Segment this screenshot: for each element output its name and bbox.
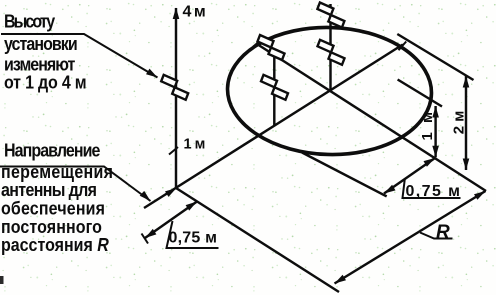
arrowhead: direction of movement at mast base (165, 188, 177, 197)
dimension 2 m vertical (465, 76, 467, 170)
svg-text:Высоту: Высоту (4, 12, 56, 32)
wire: radius line R from mast base through circle centre (144, 45, 403, 209)
extension line from circle bottom edge (for right 0,75 m) (302, 153, 387, 197)
extension line for 2 m height (397, 34, 473, 80)
svg-text:антенны для: антенны для (1, 180, 96, 200)
tick: 1 m height slash on mast (169, 147, 178, 155)
dimension R double arrow (335, 191, 486, 284)
flag for R (420, 233, 453, 239)
dipole antenna on mast (161, 75, 188, 100)
leader from bottom text block (0, 167, 151, 202)
extension line for 1 m height (398, 80, 442, 107)
tick: start slash of diameter at circle edge (253, 40, 261, 47)
turntable circle (ellipse in perspective) (226, 25, 433, 158)
dimension 1 m vertical (434, 106, 436, 157)
ground sheet edge (left, from mast base to bottom vertex) (176, 188, 339, 292)
dimension 0,75 m left (145, 202, 197, 239)
tick: end stroke at left 0,75 arrow (142, 234, 149, 244)
antenna mast (height 1 to 4 m) (175, 8, 177, 188)
svg-text:обеспечения: обеспечения (1, 199, 105, 219)
pole on circle (left) (273, 50, 275, 126)
svg-text:0,75 м: 0,75 м (406, 183, 462, 200)
svg-text:Направление: Направление (4, 141, 100, 161)
svg-text:1 м: 1 м (184, 137, 205, 153)
svg-text:от 1 до 4 м: от 1 до 4 м (4, 73, 86, 93)
dipole antenna on left circle pole, top (258, 35, 285, 60)
tick: end slash of radius line at circle edge (399, 42, 407, 51)
svg-text:2 м: 2 м (450, 111, 467, 135)
svg-text:0,75 м: 0,75 м (169, 229, 218, 246)
svg-text:1 м: 1 м (419, 109, 436, 140)
pole at circle centre (329, 4, 331, 91)
dipole antenna on centre pole, top (317, 3, 344, 28)
scan smudge bottom left (0, 276, 4, 284)
svg-text:расстояния R: расстояния R (1, 235, 109, 255)
flag for right 0,75 m (403, 179, 461, 198)
wire: second diameter line extended to lower right (257, 44, 486, 191)
svg-text:перемещения: перемещения (1, 162, 113, 182)
svg-text:постоянного: постоянного (1, 217, 102, 237)
dipole antenna on left circle pole, middle (261, 75, 288, 100)
svg-text:R: R (436, 222, 450, 243)
dimension 0,75 m right (384, 158, 435, 194)
dipole antenna on centre pole, middle (318, 40, 345, 65)
arrowhead: top of mast pointing up (173, 8, 180, 20)
svg-text:установки: установки (4, 34, 77, 54)
flag for left 0,75 m (167, 221, 219, 248)
leader from top text block (1, 34, 158, 78)
svg-text:4 м: 4 м (183, 3, 205, 20)
